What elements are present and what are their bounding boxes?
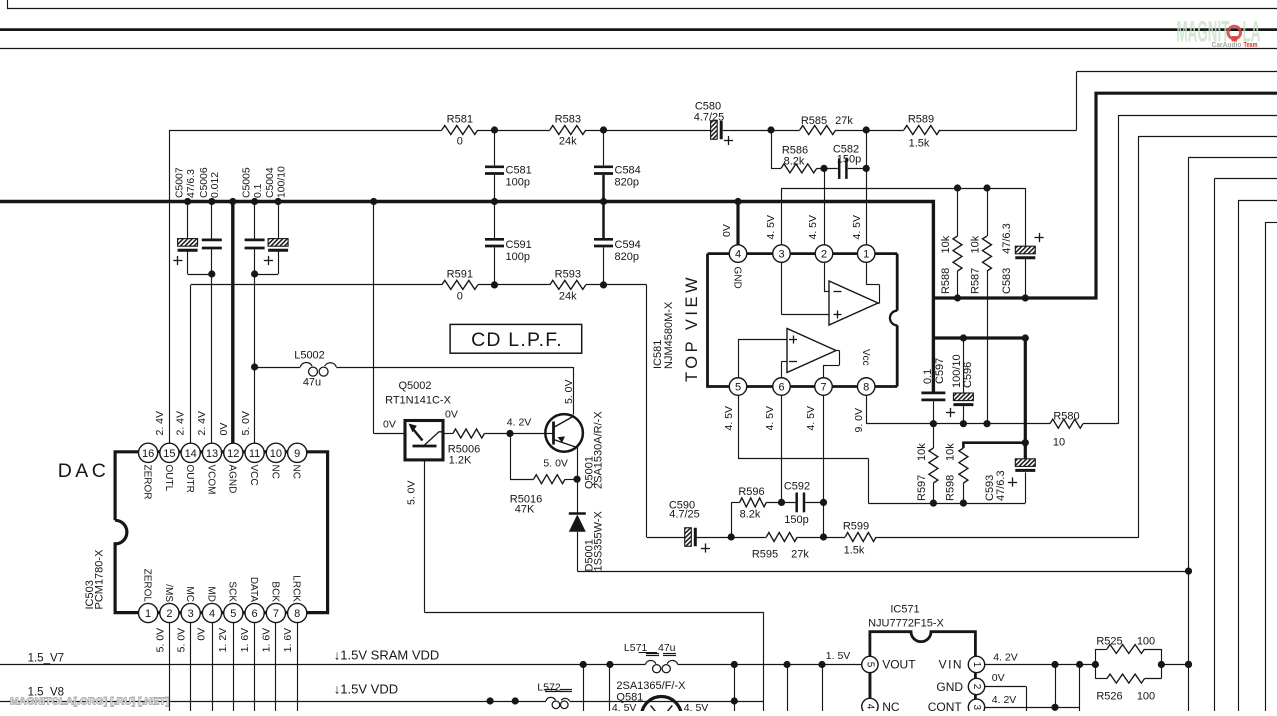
svg-text:NC: NC xyxy=(882,700,900,711)
svg-text:0V: 0V xyxy=(445,409,458,421)
svg-text:100/10: 100/10 xyxy=(276,166,287,198)
svg-text:GND: GND xyxy=(936,680,963,694)
svg-text:7: 7 xyxy=(820,381,826,393)
svg-text:R598: R598 xyxy=(945,475,957,501)
svg-text:47u: 47u xyxy=(658,642,676,654)
svg-text:8: 8 xyxy=(863,381,869,393)
svg-text:1. 5V: 1. 5V xyxy=(826,650,851,662)
svg-text:R526: R526 xyxy=(1096,691,1122,703)
svg-text:10: 10 xyxy=(270,448,282,460)
svg-text:820p: 820p xyxy=(615,251,639,263)
svg-text:C583: C583 xyxy=(1001,268,1013,294)
svg-text:4. 5V: 4. 5V xyxy=(684,702,709,711)
svg-text:5. 0V: 5. 0V xyxy=(543,458,568,470)
svg-text:↓1.5V SRAM VDD: ↓1.5V SRAM VDD xyxy=(334,648,439,663)
svg-text:C584: C584 xyxy=(615,165,641,177)
svg-text:3: 3 xyxy=(188,608,194,620)
svg-text:47K: 47K xyxy=(515,504,535,516)
svg-text:1. 6V: 1. 6V xyxy=(282,628,294,653)
svg-text:2. 4V: 2. 4V xyxy=(196,411,208,436)
svg-text:Team: Team xyxy=(1244,40,1258,49)
svg-text:1SS355W-X: 1SS355W-X xyxy=(593,511,605,572)
svg-text:L5002: L5002 xyxy=(294,350,325,362)
svg-text:4.7/25: 4.7/25 xyxy=(694,112,725,124)
svg-text:4. 5V: 4. 5V xyxy=(807,215,819,240)
svg-text:100p: 100p xyxy=(506,177,530,189)
svg-text:100: 100 xyxy=(1137,636,1155,648)
svg-text:5: 5 xyxy=(735,381,741,393)
svg-text:8.2k: 8.2k xyxy=(784,156,805,168)
svg-text:R593: R593 xyxy=(555,269,581,281)
svg-text:4: 4 xyxy=(209,608,215,620)
svg-text:R587: R587 xyxy=(969,268,981,294)
svg-text:2SA1365/F/-X: 2SA1365/F/-X xyxy=(616,680,686,692)
svg-text:4. 5V: 4. 5V xyxy=(723,406,735,431)
svg-text:1.2K: 1.2K xyxy=(449,455,472,467)
svg-text:GND: GND xyxy=(732,267,743,289)
svg-text:R580: R580 xyxy=(1053,411,1079,423)
svg-text:C591: C591 xyxy=(506,239,532,251)
svg-text:OUTL: OUTL xyxy=(163,465,174,492)
svg-text:100p: 100p xyxy=(506,251,530,263)
svg-text:1. 6V: 1. 6V xyxy=(261,628,273,653)
svg-text:C596: C596 xyxy=(962,362,974,388)
svg-text:R591: R591 xyxy=(447,269,473,281)
svg-text:R599: R599 xyxy=(843,521,869,533)
svg-text:4. 5V: 4. 5V xyxy=(612,702,637,711)
svg-text:5. 0V: 5. 0V xyxy=(154,628,166,653)
svg-text:Vcc: Vcc xyxy=(860,349,871,366)
svg-text:1: 1 xyxy=(145,608,151,620)
svg-text:2SA1530A/R/-X: 2SA1530A/R/-X xyxy=(593,411,605,489)
svg-text:820p: 820p xyxy=(615,177,639,189)
svg-text:9: 9 xyxy=(294,448,300,460)
svg-text:1: 1 xyxy=(971,662,982,668)
svg-text:4. 5V: 4. 5V xyxy=(764,406,776,431)
svg-text:C581: C581 xyxy=(506,165,532,177)
svg-text:12: 12 xyxy=(227,448,239,460)
svg-text:TOP VIEW: TOP VIEW xyxy=(683,274,701,382)
svg-text:6: 6 xyxy=(252,608,258,620)
svg-text:R596: R596 xyxy=(738,486,764,498)
svg-text:C5006: C5006 xyxy=(199,167,210,198)
svg-text:150p: 150p xyxy=(837,154,861,166)
svg-text:C592: C592 xyxy=(784,481,810,493)
svg-text:VIN: VIN xyxy=(939,657,964,671)
svg-text:ZEROR: ZEROR xyxy=(142,465,153,500)
svg-text:4.7/25: 4.7/25 xyxy=(669,509,700,521)
svg-text:C5005: C5005 xyxy=(242,167,253,198)
svg-text:VOUT: VOUT xyxy=(882,657,916,671)
svg-text:7: 7 xyxy=(273,608,279,620)
svg-text:0.1: 0.1 xyxy=(253,183,264,198)
svg-text:1.5_V7: 1.5_V7 xyxy=(28,653,64,665)
svg-text:NC: NC xyxy=(269,465,280,479)
svg-text:↓1.5V VDD: ↓1.5V VDD xyxy=(334,682,398,697)
svg-text:0V: 0V xyxy=(196,628,208,641)
svg-text:0V: 0V xyxy=(992,672,1005,684)
svg-text:4. 2V: 4. 2V xyxy=(507,417,532,429)
svg-text:5. 0V: 5. 0V xyxy=(563,379,575,404)
svg-text:0V: 0V xyxy=(721,224,733,237)
svg-text:CarAudio: CarAudio xyxy=(1212,40,1242,49)
svg-text:3: 3 xyxy=(778,249,784,261)
svg-text:R585: R585 xyxy=(801,115,827,127)
svg-text:5. 0V: 5. 0V xyxy=(240,411,252,436)
svg-text:4. 5V: 4. 5V xyxy=(851,215,863,240)
svg-text:R597: R597 xyxy=(916,475,928,501)
svg-text:27k: 27k xyxy=(791,549,809,561)
svg-text:14: 14 xyxy=(185,448,197,460)
svg-text:15: 15 xyxy=(163,448,175,460)
svg-text:NJM4580M-X: NJM4580M-X xyxy=(663,301,675,369)
svg-text:NC: NC xyxy=(291,465,302,479)
svg-text:10k: 10k xyxy=(916,443,928,461)
svg-text:1: 1 xyxy=(863,249,869,261)
svg-text:C5004: C5004 xyxy=(265,167,276,198)
svg-text:4: 4 xyxy=(864,704,875,710)
svg-text:1. 6V: 1. 6V xyxy=(239,628,251,653)
svg-text:LRCK: LRCK xyxy=(291,575,302,602)
svg-text:C594: C594 xyxy=(615,239,641,251)
svg-text:4. 2V: 4. 2V xyxy=(992,694,1017,706)
svg-text:8: 8 xyxy=(294,608,300,620)
svg-text:10: 10 xyxy=(1053,437,1065,449)
svg-text:OUTR: OUTR xyxy=(184,465,195,493)
svg-text:R525: R525 xyxy=(1096,636,1122,648)
svg-text:4. 2V: 4. 2V xyxy=(993,652,1018,664)
svg-text:1. 2V: 1. 2V xyxy=(217,628,229,653)
svg-text:Q5002: Q5002 xyxy=(398,380,431,392)
svg-text:2. 4V: 2. 4V xyxy=(175,411,187,436)
svg-text:5. 0V: 5. 0V xyxy=(175,628,187,653)
svg-text:100: 100 xyxy=(1137,691,1155,703)
svg-text:BCK: BCK xyxy=(269,581,280,602)
svg-text:3: 3 xyxy=(971,705,982,711)
svg-text:16: 16 xyxy=(142,448,154,460)
svg-text:24k: 24k xyxy=(559,136,577,148)
svg-text:DATA: DATA xyxy=(248,577,259,603)
svg-text:R595: R595 xyxy=(752,549,778,561)
svg-text:5: 5 xyxy=(230,608,236,620)
svg-text:CONT: CONT xyxy=(928,700,963,711)
svg-text:SCK: SCK xyxy=(227,581,238,602)
svg-text:MD: MD xyxy=(205,586,216,602)
svg-text:10k: 10k xyxy=(945,443,957,461)
svg-text:2: 2 xyxy=(821,249,827,261)
svg-text:VCC: VCC xyxy=(248,465,259,486)
svg-text:DAC: DAC xyxy=(58,460,110,482)
svg-text:1.5k: 1.5k xyxy=(844,545,865,557)
svg-text:0V: 0V xyxy=(218,423,230,436)
svg-text:10k: 10k xyxy=(969,235,981,253)
svg-text:4. 5V: 4. 5V xyxy=(765,215,777,240)
svg-text:CD L.P.F.: CD L.P.F. xyxy=(471,329,563,351)
svg-text:27k: 27k xyxy=(835,115,853,127)
svg-text:1.5k: 1.5k xyxy=(909,138,930,150)
svg-text:24k: 24k xyxy=(559,291,577,303)
svg-text:4. 5V: 4. 5V xyxy=(805,406,817,431)
svg-text:MAGNITOLA[.ORG] [.RU] [.NET]: MAGNITOLA[.ORG] [.RU] [.NET] xyxy=(10,696,169,708)
svg-text:9. 0V: 9. 0V xyxy=(853,408,865,433)
svg-text:R581: R581 xyxy=(447,114,473,126)
svg-text:47/6.3: 47/6.3 xyxy=(1001,223,1013,254)
svg-text:8.2k: 8.2k xyxy=(740,509,761,521)
svg-text:2: 2 xyxy=(166,608,172,620)
svg-text:2. 4V: 2. 4V xyxy=(154,411,166,436)
svg-text:150p: 150p xyxy=(784,514,808,526)
svg-text:VCOM: VCOM xyxy=(205,465,216,495)
svg-text:47u: 47u xyxy=(303,377,321,389)
svg-text:R589: R589 xyxy=(908,114,934,126)
svg-text:47/6.3: 47/6.3 xyxy=(995,470,1007,501)
svg-text:MC: MC xyxy=(184,586,195,602)
svg-text:IC571: IC571 xyxy=(890,604,919,616)
svg-text:5: 5 xyxy=(864,662,875,668)
svg-text:13: 13 xyxy=(206,448,218,460)
svg-text:0.012: 0.012 xyxy=(210,172,221,198)
svg-text:11: 11 xyxy=(249,448,260,460)
svg-text:4: 4 xyxy=(735,249,741,261)
svg-text:5. 0V: 5. 0V xyxy=(406,480,418,505)
svg-text:NJU7772F15-X: NJU7772F15-X xyxy=(868,618,944,630)
svg-text:AGND: AGND xyxy=(227,465,238,494)
svg-text:C5007: C5007 xyxy=(175,167,186,198)
svg-text:47/6.3: 47/6.3 xyxy=(186,169,197,198)
svg-text:R588: R588 xyxy=(940,268,952,294)
svg-text:2: 2 xyxy=(971,684,982,690)
svg-text:/MS: /MS xyxy=(163,584,174,602)
svg-text:0V: 0V xyxy=(383,419,396,431)
svg-text:ZEROL: ZEROL xyxy=(142,569,153,603)
svg-text:0: 0 xyxy=(457,136,463,148)
svg-text:6: 6 xyxy=(778,381,784,393)
svg-text:RT1N141C-X: RT1N141C-X xyxy=(385,395,451,407)
svg-text:10k: 10k xyxy=(940,235,952,253)
svg-text:PCM1780-X: PCM1780-X xyxy=(94,549,106,610)
svg-text:0.1: 0.1 xyxy=(922,369,934,384)
svg-text:C597: C597 xyxy=(934,358,946,384)
svg-text:0: 0 xyxy=(457,291,463,303)
svg-text:R583: R583 xyxy=(555,114,581,126)
